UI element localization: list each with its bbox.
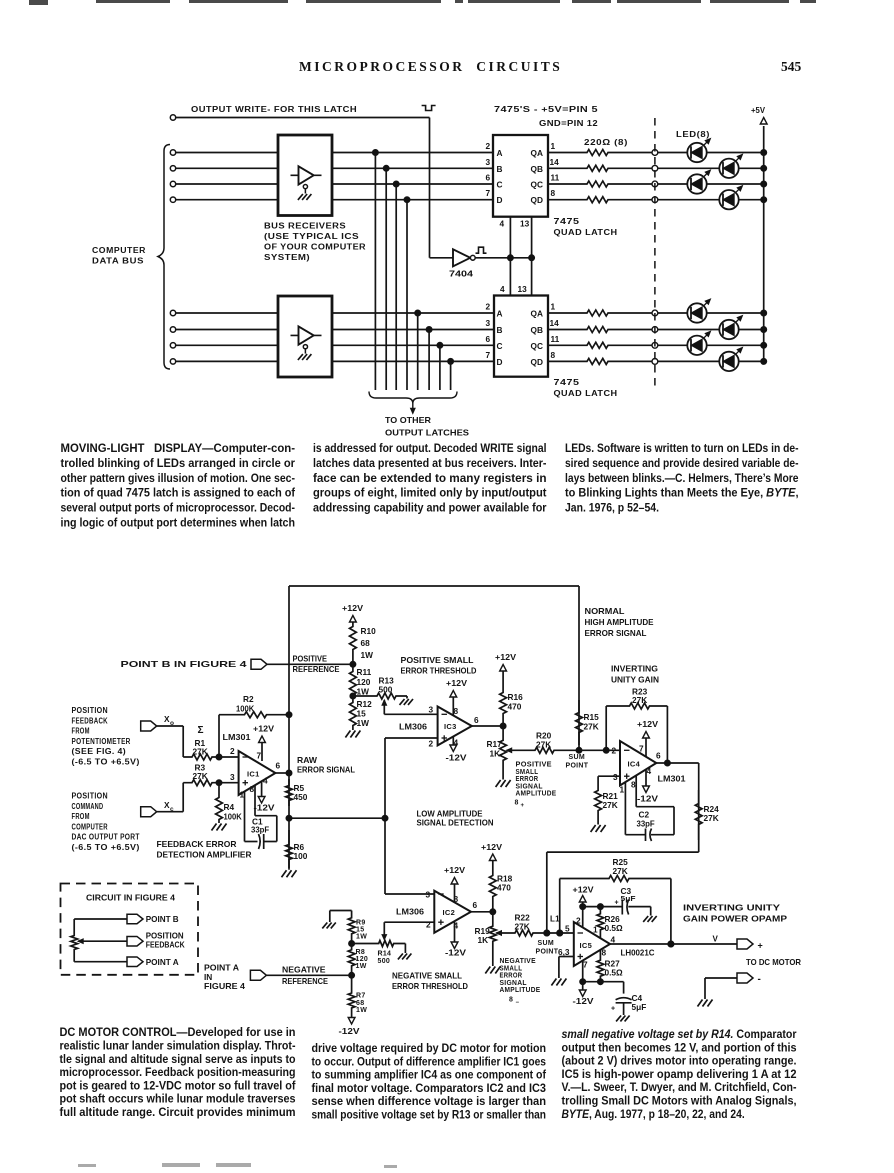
svg-text:NORMAL: NORMAL (585, 606, 625, 616)
svg-text:LM306: LM306 (396, 907, 424, 917)
svg-text:14: 14 (550, 157, 560, 167)
wire positive reference (267, 661, 356, 667)
wire IC1 inputs (219, 757, 239, 783)
wire node to LED row 2 (658, 167, 720, 169)
labels IC5 LH0021C (580, 941, 655, 958)
svg-text:-12V: -12V (339, 1026, 361, 1036)
svg-text:220Ω (8): 220Ω (8) (584, 138, 628, 147)
svg-text:V: V (713, 935, 719, 944)
svg-text:R11: R11 (357, 667, 372, 677)
svg-text:3: 3 (426, 890, 431, 900)
svg-text:4: 4 (500, 219, 505, 229)
terminal flag POINT B in box (127, 914, 179, 924)
wire data bus input 3 (top group) (170, 181, 493, 186)
wire LED to +5V rail row 2 (739, 165, 767, 171)
svg-text:HIGH AMPLITUDE: HIGH AMPLITUDE (585, 617, 654, 627)
svg-text:AMPLITUDE: AMPLITUDE (516, 791, 557, 798)
svg-text:addressing capability and powe: addressing capability and power availabl… (313, 501, 547, 515)
svg-text:1W: 1W (356, 963, 367, 970)
resistor R23 feedback (606, 703, 667, 763)
wire node to LED row 1 (658, 152, 688, 154)
svg-text:LM301: LM301 (658, 774, 686, 784)
svg-text:8: 8 (509, 997, 513, 1004)
node on dashed line row 6 (652, 327, 658, 333)
svg-text:AMPLITUDE: AMPLITUDE (500, 987, 541, 994)
svg-text:5μF: 5μF (621, 894, 636, 903)
wire IC5 + input to ground (559, 957, 574, 979)
svg-text:to Blinking Lights than Meets: to Blinking Lights than Meets the Eye, B… (565, 486, 799, 500)
svg-text:2: 2 (576, 916, 581, 926)
svg-text:100K: 100K (236, 704, 254, 714)
potentiometer R13 (353, 676, 407, 700)
svg-text:+12V: +12V (253, 724, 274, 734)
label COMPUTER DATA BUS (92, 246, 146, 266)
node on dashed line row 8 (652, 359, 658, 365)
svg-text:POINT B: POINT B (146, 914, 179, 924)
svg-text:POSITIVE SMALL: POSITIVE SMALL (401, 655, 474, 665)
svg-text:7475'S - +5V=PIN 5: 7475'S - +5V=PIN 5 (494, 105, 598, 114)
ground branch above R9 (322, 911, 351, 929)
svg-text:27K: 27K (536, 740, 551, 750)
svg-text:SIGNAL: SIGNAL (516, 783, 544, 790)
svg-text:+12V: +12V (481, 842, 502, 852)
terminal flag POINT A in box (127, 957, 179, 967)
svg-text:IC2: IC2 (443, 908, 456, 917)
LED D2 (719, 154, 742, 178)
pin names latch2 QA QB QC QD (531, 309, 543, 367)
svg-text:COMPUTER: COMPUTER (92, 246, 146, 255)
resistor R25 feedback (557, 876, 674, 948)
op-amp IC4 LM301 (620, 741, 656, 785)
svg-text:SUM: SUM (538, 940, 554, 947)
terminal flag Xc input (141, 800, 174, 817)
wiper wire POSITION FEEDBACK (78, 939, 127, 944)
svg-text:7404: 7404 (449, 269, 473, 279)
op-amp IC3 LM306 (438, 707, 472, 746)
inverter 7404 (430, 249, 532, 266)
svg-text:(about 2 V) drives motor into: (about 2 V) drives motor into operating … (562, 1054, 797, 1068)
wire latch1 pin13 to latch2 (531, 217, 533, 296)
svg-text:−: − (516, 1000, 520, 1006)
svg-text:8: 8 (551, 350, 556, 360)
label LM301 IC1 (223, 732, 251, 742)
label SUM POINT (lower) (536, 940, 559, 956)
label INVERTING UNITY GAIN (611, 664, 659, 685)
resistor R5 (286, 715, 293, 868)
wire LED to +5V rail row 5 (707, 310, 767, 316)
resistor 220ohm row 3 (548, 181, 655, 187)
svg-text:1: 1 (620, 785, 625, 795)
resistor 220ohm row 1 (548, 150, 655, 156)
op-amp IC5 LH0021C power opamp (574, 922, 610, 966)
wire negative reference (266, 972, 354, 978)
wire LED to +5V rail row 1 (707, 150, 767, 156)
svg-text:pot shaft occurs while lunar m: pot shaft occurs while lunar module trav… (60, 1092, 296, 1106)
dashed separation line (654, 118, 656, 391)
svg-text:2: 2 (429, 739, 434, 749)
svg-text:4: 4 (647, 766, 652, 776)
svg-text:27K: 27K (632, 695, 647, 705)
capacitor C4 (583, 982, 632, 1015)
svg-text:3: 3 (486, 318, 491, 328)
svg-text:POSITIVE: POSITIVE (293, 654, 328, 664)
svg-text:SYSTEM): SYSTEM) (264, 253, 310, 262)
svg-text:R10: R10 (361, 626, 377, 636)
svg-text:7: 7 (486, 188, 491, 198)
caption moving-light display column 3 (565, 441, 799, 514)
svg-text:full altitude range. Circuit p: full altitude range. Circuit provides mi… (60, 1105, 296, 1119)
svg-text:POINT: POINT (536, 949, 559, 956)
wire R24 to IC5 sum (544, 852, 699, 936)
svg-text:1W: 1W (357, 718, 370, 728)
wire sum to IC4 (579, 747, 620, 753)
svg-text:4: 4 (500, 284, 505, 294)
svg-text:1K: 1K (478, 935, 489, 945)
svg-text:COMPUTER: COMPUTER (72, 822, 108, 831)
wire LED to +5V rail row 4 (739, 197, 767, 203)
svg-text:DC MOTOR CONTROL—Developed for: DC MOTOR CONTROL—Developed for use in (60, 1025, 296, 1039)
label BUS RECEIVERS note (264, 222, 366, 263)
svg-text:IC1: IC1 (247, 770, 260, 779)
terminal flag Xo input (141, 714, 174, 731)
pin names latch1 QA QB QC QD (531, 148, 543, 205)
svg-text:POSITIVE: POSITIVE (516, 762, 552, 769)
label IC1 (247, 770, 260, 779)
wire node to LED row 8 (658, 360, 720, 362)
svg-text:OUTPUT WRITE- FOR THIS LATCH: OUTPUT WRITE- FOR THIS LATCH (191, 105, 357, 114)
svg-text:33pF: 33pF (637, 819, 655, 829)
potentiometer in figure4 box (71, 919, 78, 962)
ground below R12 (345, 728, 360, 738)
svg-text:QD: QD (531, 195, 543, 205)
wire IC2 - input (385, 893, 434, 895)
svg-text:27K: 27K (613, 866, 628, 876)
wire junction line RAW to IC2 (289, 817, 385, 819)
svg-text:-12V: -12V (446, 753, 468, 763)
svg-text:groups of eight, limited only: groups of eight, limited only by input/o… (313, 486, 547, 500)
label C1 33pF (251, 817, 269, 835)
label 220 ohm (8) (584, 138, 628, 147)
svg-text:0.5Ω: 0.5Ω (605, 923, 624, 933)
-12V arrow IC1 (254, 781, 276, 813)
wire node to LED row 3 (658, 183, 688, 185)
svg-text:R7: R7 (356, 993, 366, 1000)
svg-text:470: 470 (497, 883, 511, 893)
negative pulse symbol on OUTPUT WRITE (422, 106, 436, 111)
wire Xc to R3 (157, 783, 184, 812)
svg-text:+: + (615, 900, 619, 907)
quad latch IC box 7475 #2 (494, 296, 548, 377)
label R23 27K (632, 687, 648, 705)
label V (713, 935, 719, 944)
resistor R11 (350, 664, 372, 696)
svg-text:TO OTHER: TO OTHER (385, 415, 431, 425)
labels LM306 IC2 (396, 907, 455, 918)
svg-text:-12V: -12V (637, 794, 659, 804)
label OUTPUT WRITE- FOR THIS LATCH (191, 105, 357, 114)
pin names latch1 A B C D (497, 148, 503, 205)
resistor 220ohm row 7 (548, 342, 655, 348)
caption moving-light display column 1 (61, 441, 296, 529)
label NEGATIVE SMALL ERROR SIGNAL AMPLITUDE (500, 958, 541, 1006)
positive pulse at 7404 output (476, 247, 487, 253)
svg-text:FEEDBACK: FEEDBACK (72, 716, 108, 725)
svg-text:INVERTING: INVERTING (611, 664, 658, 674)
resistor R7 (348, 975, 367, 1017)
svg-text:IC5 is high-power opamp delive: IC5 is high-power opamp delivering 1 A a… (562, 1067, 797, 1081)
svg-text:IC5: IC5 (580, 941, 593, 950)
wire POINT B in box (74, 918, 127, 920)
svg-text:(-6.5 TO +6.5V): (-6.5 TO +6.5V) (72, 757, 140, 766)
label R24 27K (704, 804, 720, 823)
+12V arrow above R16 (495, 652, 516, 671)
svg-text:1W: 1W (356, 1007, 367, 1014)
svg-text:LH0021C: LH0021C (621, 948, 655, 958)
svg-text:15: 15 (356, 927, 364, 934)
bus receiver box U1 (278, 135, 332, 216)
svg-text:8: 8 (454, 706, 459, 716)
svg-text:(SEE FIG. 4): (SEE FIG. 4) (72, 747, 127, 756)
label C4 5uF (611, 993, 646, 1013)
svg-text:IC4: IC4 (628, 760, 641, 769)
svg-text:to summing amplifier IC4 as on: to summing amplifier IC4 as one componen… (312, 1068, 547, 1082)
quad latch IC box 7475 #1 (493, 135, 548, 217)
svg-text:-12V: -12V (254, 803, 276, 813)
label C3 5uF (615, 886, 636, 907)
svg-text:A: A (497, 148, 503, 158)
label SUM POINT (upper) (566, 754, 589, 770)
svg-text:POSITION: POSITION (72, 792, 108, 801)
resistor R20 from R17 wiper (507, 747, 580, 753)
svg-text:SIGNAL DETECTION: SIGNAL DETECTION (417, 818, 494, 828)
svg-text:6: 6 (486, 173, 491, 183)
svg-text:drive voltage required by DC m: drive voltage required by DC motor for m… (312, 1041, 547, 1055)
svg-text:tle signal and altitude signal: tle signal and altitude signal serve as … (60, 1052, 296, 1066)
resistor 220ohm row 6 (548, 327, 655, 333)
capacitor C3 (622, 900, 650, 916)
op-amp IC2 LM306 (434, 891, 471, 933)
svg-text:R4: R4 (224, 802, 235, 812)
buffer symbol inside U1 (291, 166, 322, 200)
ground below R6 (282, 866, 297, 877)
svg-text:FEEDBACK: FEEDBACK (146, 940, 185, 950)
svg-text:100K: 100K (224, 812, 242, 822)
terminal flag POINT A (250, 970, 266, 980)
ground below R17 (496, 780, 511, 787)
wire data bus input 7 (bottom group) (170, 343, 494, 348)
svg-text:11: 11 (551, 334, 560, 344)
LED D3 (687, 170, 710, 194)
wire bus tap vertical 5 (415, 310, 421, 390)
svg-text:ERROR THRESHOLD: ERROR THRESHOLD (401, 666, 477, 676)
resistor R22 from R19 wiper (496, 930, 574, 936)
sum point junction dots IC5 (544, 930, 563, 936)
svg-text:+: + (758, 941, 763, 951)
node on dashed line row 2 (652, 165, 658, 171)
resistor R4 (216, 780, 223, 823)
pin labels IC4 (612, 744, 662, 795)
svg-text:final motor voltage. Comparato: final motor voltage. Comparators IC2 and… (312, 1081, 547, 1095)
svg-text:OUTPUT LATCHES: OUTPUT LATCHES (385, 428, 470, 438)
svg-text:450: 450 (294, 792, 308, 802)
node on dashed line row 5 (652, 310, 658, 316)
pins 4 13 above latch2 (500, 284, 527, 294)
+12V arrow IC3 (446, 678, 467, 716)
wire bus tap vertical 8 (448, 358, 454, 390)
svg-text:TO DC MOTOR: TO DC MOTOR (746, 957, 801, 967)
-12V arrow below R7 (339, 1018, 361, 1037)
wire node to LED row 4 (658, 199, 720, 201)
svg-text:Jan. 1976, p 52–54.: Jan. 1976, p 52–54. (565, 501, 659, 515)
svg-text:C: C (497, 341, 503, 351)
label 7475 supply pins (494, 105, 598, 128)
label C2 33pF (637, 810, 655, 829)
pin labels latch2 inputs 2 3 6 7 (486, 302, 491, 360)
label NEGATIVE REFERENCE (282, 965, 328, 987)
svg-text:4: 4 (263, 776, 268, 786)
svg-text:GAIN POWER OPAMP: GAIN POWER OPAMP (683, 914, 788, 924)
wire - return to ground (705, 978, 737, 999)
svg-text:8: 8 (631, 780, 636, 790)
svg-text:8: 8 (602, 948, 607, 958)
wiper of R14 to IC2 (382, 922, 434, 940)
resistor R24 (695, 763, 702, 852)
svg-text:+12V: +12V (446, 678, 467, 688)
svg-text:small negative voltage set by: small negative voltage set by R14. Compa… (562, 1027, 797, 1041)
svg-text:D: D (497, 195, 503, 205)
caption dc motor control column 2 (312, 1041, 547, 1122)
svg-text:ing logic of output port deter: ing logic of output port determines when… (61, 515, 296, 529)
pins 4 13 below latch1 (500, 219, 530, 229)
label +5V (751, 105, 765, 115)
svg-text:QC: QC (531, 180, 543, 190)
label TO OTHER OUTPUT LATCHES (385, 415, 470, 438)
wire latch1 pin4 to latch2 (509, 217, 511, 296)
svg-text:SIGNAL: SIGNAL (500, 980, 528, 987)
resistor R18 (489, 861, 512, 912)
svg-text:+12V: +12V (495, 652, 516, 662)
svg-text:1K: 1K (490, 749, 501, 759)
+12V arrow IC2 (444, 865, 465, 902)
bus receiver box U2 (278, 296, 332, 377)
svg-text:100: 100 (294, 851, 308, 861)
potentiometer R17 (487, 726, 507, 780)
svg-text:pot is geared to 12-VDC motor: pot is geared to 12-VDC motor so full tr… (60, 1078, 297, 1092)
svg-text:500: 500 (378, 958, 391, 965)
svg-text:B: B (497, 325, 503, 335)
-12V arrow IC3 (446, 737, 468, 763)
svg-text:3: 3 (486, 157, 491, 167)
svg-text:+12V: +12V (444, 865, 465, 875)
svg-text:ERROR SIGNAL: ERROR SIGNAL (585, 628, 647, 638)
pin labels latch2 outputs 1 14 11 8 (550, 302, 560, 360)
wire data bus input 2 (top group) (170, 166, 493, 171)
svg-text:-12V: -12V (445, 948, 467, 958)
svg-text:500: 500 (379, 684, 393, 694)
svg-text:R16: R16 (508, 692, 524, 702)
svg-text:microprocessor. Feedback posit: microprocessor. Feedback position-measur… (60, 1065, 296, 1079)
resistor 220ohm row 4 (548, 197, 655, 203)
svg-text:2: 2 (486, 141, 491, 151)
svg-text:3: 3 (230, 772, 235, 782)
svg-text:small positive voltage set by: small positive voltage set by R13 or sma… (312, 1108, 547, 1122)
LED D6 (719, 316, 742, 340)
LED D4 (719, 186, 742, 210)
label 7475 QUAD LATCH #2 (554, 378, 618, 398)
terminal flag POSITION FEEDBACK (127, 931, 185, 950)
svg-text:33pF: 33pF (251, 825, 269, 835)
svg-text:6: 6 (474, 715, 479, 725)
svg-text:R15: R15 (584, 712, 600, 722)
capacitor C1 compensation loop (245, 785, 277, 849)
node on dashed line row 7 (652, 342, 658, 348)
svg-text:7: 7 (639, 744, 644, 754)
wire IC1 output (275, 770, 292, 776)
resistor 220ohm row 2 (548, 165, 655, 171)
svg-text:QUAD LATCH: QUAD LATCH (554, 228, 618, 237)
svg-text:trolling Small DC Motors with: trolling Small DC Motors with Analog Sig… (562, 1094, 797, 1108)
svg-text:INVERTING UNITY: INVERTING UNITY (683, 903, 781, 913)
svg-text:C: C (497, 180, 503, 190)
svg-text:A: A (497, 309, 503, 319)
svg-text:DETECTION AMPLIFIER: DETECTION AMPLIFIER (157, 850, 252, 860)
svg-text:14: 14 (550, 318, 560, 328)
svg-text:QB: QB (531, 325, 543, 335)
wire node to LED row 7 (658, 344, 688, 346)
node R5 R6 junction (286, 815, 292, 821)
buffer symbol inside U2 (291, 326, 322, 360)
svg-text:D: D (497, 357, 503, 367)
pin labels latch1 outputs 1 14 11 8 (550, 141, 560, 198)
pin labels IC5 (558, 916, 616, 970)
ground at IC5 + input (551, 979, 566, 986)
wire Xo to R1 (157, 726, 184, 757)
wire LED to +5V rail row 6 (739, 327, 767, 333)
svg-text:sense when difference voltage: sense when difference voltage is larger … (312, 1094, 547, 1108)
svg-text:5μF: 5μF (632, 1002, 647, 1012)
svg-text:FROM: FROM (72, 727, 90, 736)
ground at C4 (616, 1016, 630, 1022)
svg-text:R14: R14 (378, 951, 392, 958)
node on dashed line row 1 (652, 150, 658, 156)
svg-text:LM301: LM301 (223, 732, 251, 742)
svg-text:27K: 27K (193, 771, 208, 781)
label R27 0.5ohm (605, 959, 624, 978)
svg-text:UNITY GAIN: UNITY GAIN (611, 675, 659, 685)
ground below R4 (212, 824, 227, 831)
svg-text:to occur. Output of difference: to occur. Output of difference amplifier… (312, 1054, 547, 1068)
wire POINT A in box (74, 961, 127, 963)
resistor R8 (348, 944, 368, 976)
svg-text:-: - (758, 974, 761, 985)
label 7404 (449, 269, 473, 279)
svg-text:+5V: +5V (751, 105, 765, 115)
svg-text:tion of quad 7475 latch is ass: tion of quad 7475 latch is assigned to e… (61, 486, 296, 500)
node on dashed line row 4 (652, 197, 658, 203)
label POSITIVE SMALL ERROR SIGNAL AMPLITUDE (515, 762, 557, 810)
svg-text:-12V: -12V (573, 996, 595, 1006)
svg-text:SUM: SUM (569, 754, 585, 761)
svg-text:V.—L. Sweer, T. Dwyer, and M.: V.—L. Sweer, T. Dwyer, and M. Critchfiel… (562, 1080, 797, 1094)
svg-text:27K: 27K (193, 747, 208, 757)
svg-text:1W: 1W (357, 687, 370, 697)
svg-text:27K: 27K (515, 922, 530, 932)
svg-text:15: 15 (357, 709, 367, 719)
svg-text:OF YOUR COMPUTER: OF YOUR COMPUTER (264, 243, 366, 252)
svg-text:REFERENCE: REFERENCE (282, 976, 328, 986)
svg-text:GND=PIN 12: GND=PIN 12 (539, 119, 598, 128)
svg-text:8: 8 (515, 800, 519, 807)
